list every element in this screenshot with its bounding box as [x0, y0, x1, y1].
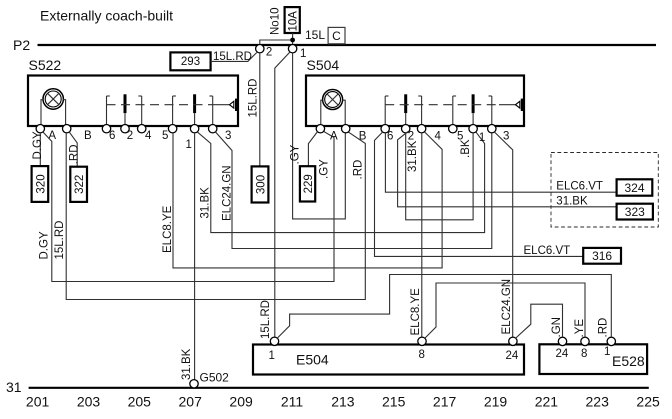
wire 15L.RD S522 pin B to S504 pin B — [54, 132, 365, 300]
svg-text:ELC6.VT: ELC6.VT — [556, 181, 603, 193]
svg-text:8: 8 — [419, 349, 425, 361]
wire 31.BK S504 pin 1 to S504 pin 2 — [406, 133, 473, 220]
svg-text:ELC6.VT: ELC6.VT — [524, 245, 571, 257]
ground G502 — [190, 371, 229, 388]
S522 pin circles and labels — [36, 125, 231, 152]
power rail P2 — [13, 37, 656, 53]
wire .RD S522 pin B to connector 322 — [69, 132, 81, 167]
connector 320 — [32, 166, 49, 202]
svg-text:293: 293 — [181, 56, 200, 68]
svg-text:1: 1 — [300, 48, 306, 60]
svg-text:211: 211 — [281, 394, 304, 410]
switch contacts S504 — [385, 94, 522, 124]
control unit E528 — [539, 337, 647, 374]
svg-text:S504: S504 — [307, 57, 340, 73]
connector 322 — [70, 167, 87, 202]
svg-text:300: 300 — [256, 175, 268, 194]
wire ELC8.YE S522 pin 5 to S504 pin 4 — [162, 132, 442, 268]
svg-text:6: 6 — [109, 130, 115, 142]
wire D.GY S522 pin A to connector 320 — [32, 131, 44, 166]
wire 31.BK S522 pin 1 to ground G502 — [181, 133, 195, 380]
svg-text:.GN: .GN — [551, 317, 563, 337]
svg-text:15L.RD: 15L.RD — [213, 51, 252, 63]
wire 31.BK S522 pin 1 to S504 pin 1 — [197, 132, 484, 233]
svg-text:3: 3 — [225, 130, 231, 142]
svg-text:ELC8.YE: ELC8.YE — [410, 288, 422, 336]
svg-text:15L.RD: 15L.RD — [247, 79, 259, 118]
svg-text:2: 2 — [266, 47, 272, 59]
svg-text:A: A — [330, 131, 338, 143]
connector 229 — [300, 166, 315, 201]
control unit E504 — [253, 337, 524, 374]
svg-text:D.GY: D.GY — [32, 131, 44, 159]
svg-text:217: 217 — [433, 394, 457, 410]
svg-text:P2: P2 — [13, 37, 30, 53]
wire .YE E504 pin 8 to E528 pin 8 — [425, 283, 586, 338]
svg-text:24: 24 — [506, 350, 519, 362]
svg-text:213: 213 — [331, 394, 355, 410]
lamp inside S504 — [321, 90, 345, 125]
svg-text:323: 323 — [625, 205, 645, 219]
svg-text:225: 225 — [636, 394, 660, 410]
switch S504 — [306, 57, 524, 126]
svg-text:15L: 15L — [305, 28, 325, 42]
svg-text:31: 31 — [6, 379, 22, 395]
svg-text:1: 1 — [269, 350, 275, 362]
wire D.GY S522 pin A to S504 pin A — [39, 131, 334, 281]
svg-text:.YE: .YE — [574, 319, 586, 338]
connector C on rail P2 — [328, 27, 345, 43]
bottom coordinate scale — [26, 394, 660, 410]
svg-text:.BK: .BK — [460, 139, 472, 158]
svg-text:A: A — [48, 130, 56, 142]
switch contacts S522 — [107, 94, 237, 124]
svg-text:S522: S522 — [29, 57, 62, 73]
node pin 2 on rail P2 — [256, 45, 273, 59]
lamp inside S522 — [41, 89, 66, 125]
svg-text:Externally coach-built: Externally coach-built — [40, 8, 173, 24]
svg-text:203: 203 — [77, 394, 101, 410]
svg-text:.RD: .RD — [69, 144, 81, 164]
svg-text:223: 223 — [586, 394, 610, 410]
svg-text:4: 4 — [435, 131, 442, 143]
svg-text:C: C — [332, 29, 341, 43]
svg-text:E504: E504 — [296, 352, 329, 368]
S504 pin circles and labels — [316, 125, 509, 145]
svg-text:316: 316 — [592, 249, 612, 263]
svg-text:24: 24 — [556, 348, 569, 360]
wire .RD E504 pin 1 to E528 pin 1 — [277, 275, 612, 339]
wire ELC6.VT S504 pin 6 to connector 324 — [385, 133, 616, 192]
label 15L — [305, 28, 325, 42]
svg-text:ELC24.GN: ELC24.GN — [501, 279, 513, 335]
wire 31.BK S504 pin 2 to connector 323 — [398, 132, 617, 207]
svg-text:1: 1 — [604, 346, 610, 358]
svg-text:.RD: .RD — [598, 318, 610, 338]
wire 15L.RD pin 1 down to E504 pin 1 — [260, 52, 290, 339]
svg-text:207: 207 — [179, 394, 203, 410]
connector 293 — [170, 52, 210, 70]
dashed enclosure around connectors 324 and 323 — [551, 153, 658, 228]
wire .GY S504 pin A to connector 229 — [290, 132, 318, 167]
wire ELC8.YE S504 pin 4 to E504 pin 8 — [410, 133, 422, 337]
wire 15L pin 1 to S504 pin B — [293, 53, 346, 219]
wire 15L.RD pin 2 down to connector 300 — [247, 53, 260, 166]
svg-text:10A: 10A — [288, 11, 300, 32]
svg-text:31.BK: 31.BK — [181, 348, 193, 380]
svg-text:221: 221 — [535, 394, 559, 410]
svg-text:15L.RD: 15L.RD — [260, 300, 272, 339]
svg-text:1: 1 — [479, 132, 485, 144]
svg-text:G502: G502 — [200, 371, 230, 385]
junction dot fuse output — [290, 38, 295, 43]
svg-text:215: 215 — [382, 394, 406, 410]
svg-text:E528: E528 — [612, 353, 645, 369]
switch S522 — [28, 57, 238, 126]
svg-text:205: 205 — [128, 394, 152, 410]
svg-text:31.BK: 31.BK — [200, 187, 212, 219]
title text Externally coach-built — [40, 8, 173, 24]
wire ELC24.GN S522 pin 3 to S504 pin 3 — [215, 132, 492, 249]
svg-text:229: 229 — [303, 174, 315, 193]
connector 300 — [252, 166, 269, 202]
svg-text:15L.RD: 15L.RD — [54, 221, 66, 260]
svg-text:.RD: .RD — [353, 160, 365, 180]
svg-text:219: 219 — [484, 394, 508, 410]
ground rail 31 — [6, 379, 649, 395]
svg-text:B: B — [359, 131, 367, 143]
wire ELC6.VT S504 pin 6 to connector 316 — [375, 132, 584, 257]
svg-text:.GY: .GY — [290, 144, 302, 164]
svg-text:No10: No10 — [270, 8, 282, 36]
svg-text:31.BK: 31.BK — [556, 196, 588, 208]
svg-text:ELC8.YE: ELC8.YE — [162, 205, 174, 253]
svg-text:201: 201 — [26, 394, 50, 410]
connector 324 — [556, 179, 652, 195]
svg-text:ELC24.GN: ELC24.GN — [222, 165, 234, 221]
svg-text:8: 8 — [581, 348, 587, 360]
svg-text:31.BK: 31.BK — [407, 140, 419, 172]
connector 316 — [524, 245, 622, 264]
fuse No10 10A — [270, 7, 300, 44]
svg-text:1: 1 — [186, 139, 192, 151]
svg-text:324: 324 — [624, 181, 644, 195]
wire 15L.RD from pin 2 to connector 293 — [211, 51, 257, 63]
svg-text:5: 5 — [162, 130, 168, 142]
svg-text:6: 6 — [387, 131, 393, 143]
svg-text:209: 209 — [229, 394, 253, 410]
wire fuse output stub to pin 2 — [260, 40, 293, 45]
svg-text:320: 320 — [35, 174, 47, 193]
connector 323 — [556, 196, 653, 220]
svg-text:B: B — [84, 130, 92, 142]
svg-text:4: 4 — [145, 130, 152, 142]
wire .GN E504 pin 24 to E528 pin 24 — [515, 304, 563, 338]
wire ELC24.GN S504 pin 3 to E504 pin 24 — [494, 132, 513, 337]
svg-text:.GY: .GY — [319, 159, 331, 179]
node pin 1 on rail P2 — [288, 45, 306, 61]
svg-text:322: 322 — [74, 175, 86, 194]
svg-text:D.GY: D.GY — [39, 231, 51, 259]
svg-text:2: 2 — [127, 130, 133, 142]
